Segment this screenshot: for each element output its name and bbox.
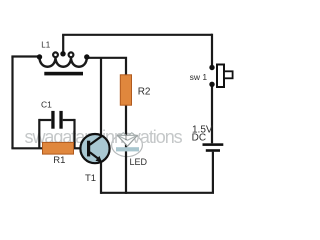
wire left rail (11, 57, 13, 149)
svg-text:C1: C1 (41, 100, 52, 110)
wire R1 left lead (11, 147, 42, 149)
transistor T1 emitter arrowhead (96, 156, 103, 162)
wire L1 center tap riser (62, 35, 64, 54)
LED wire hint through triangle (125, 135, 127, 141)
battery plate short (206, 149, 220, 152)
svg-text:T1: T1 (85, 173, 96, 184)
resistor R2 (120, 75, 131, 105)
wire C1 right lead (63, 119, 75, 121)
battery plate long (203, 143, 224, 146)
LED anode triangle inner V facet edges (118, 136, 136, 141)
transistor T1 emitter stroke (90, 152, 100, 160)
diamond crown peak left (120, 133, 126, 136)
transistor T1 collector stroke (90, 136, 102, 145)
svg-text:LED: LED (130, 157, 148, 167)
diamond crown peak right (129, 133, 135, 136)
capacitor C1 plate right (59, 111, 62, 129)
capacitor C1 plate left (51, 111, 54, 129)
switch sw1 node top (209, 65, 214, 70)
watermark globe ellipse (112, 133, 143, 156)
switch sw1 actuator tab (224, 71, 233, 78)
wire top rail (62, 34, 212, 36)
svg-text:DC: DC (192, 132, 206, 143)
svg-text:R2: R2 (138, 86, 151, 97)
node dot L1 center tap (60, 51, 65, 56)
wire switch to battery (211, 86, 213, 144)
wire top-left to L1 (11, 55, 39, 57)
switch sw1 node bottom (209, 82, 214, 87)
wire collector riser (100, 58, 102, 137)
wire L1 to R2 top (87, 58, 126, 75)
switch sw1 body (217, 65, 224, 88)
wire R2 bottom through LED to bottom rail (125, 105, 127, 194)
wire battery to bottom rail (212, 152, 214, 193)
wire bottom rail (101, 192, 214, 194)
LED cathode bar (116, 147, 139, 151)
wire base lead (74, 147, 88, 149)
svg-text:R1: R1 (53, 155, 65, 166)
wire C1 right junction drop (73, 119, 75, 148)
wire C1 left junction drop (38, 119, 40, 148)
resistor R1 (43, 142, 74, 154)
node dot L1 left (37, 54, 42, 59)
inductor L1 small loop left (53, 52, 58, 57)
transistor T1 body (80, 134, 109, 163)
inductor L1 coil (39, 57, 86, 67)
LED anode triangle (117, 135, 137, 146)
wire emitter drop (100, 161, 102, 194)
inductor L1 small loop right (69, 52, 74, 57)
wire right drop to switch (211, 34, 213, 66)
wire C1 left lead (39, 119, 51, 121)
transistor T1 base bar (87, 141, 90, 157)
svg-text:sw 1: sw 1 (190, 72, 208, 82)
inductor L1 core bar (44, 72, 83, 76)
svg-text:L1: L1 (41, 41, 50, 50)
node dot L1 right (84, 54, 89, 59)
